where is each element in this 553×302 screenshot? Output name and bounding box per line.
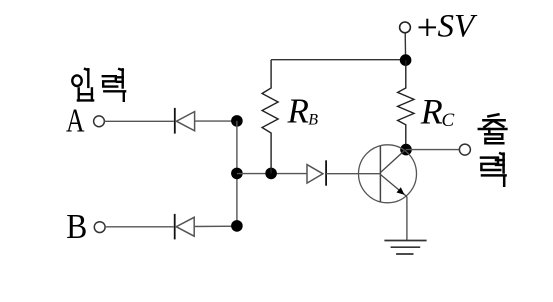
- terminal A circle: [94, 116, 105, 127]
- node junction dot (RB bottom): [265, 168, 277, 180]
- svg-text:A: A: [66, 103, 85, 140]
- svg-text:B: B: [308, 112, 318, 129]
- wire collector to output: [406, 149, 459, 151]
- transistor Q1: [359, 145, 417, 203]
- terminal output circle: [459, 144, 470, 155]
- ground: [384, 241, 426, 255]
- wire top rail: [271, 59, 406, 61]
- node junction dot (B line): [231, 220, 243, 232]
- diode D1 (input A): [175, 108, 195, 134]
- terminal +5V circle: [400, 22, 411, 33]
- svg-text:C: C: [442, 110, 455, 131]
- label 출력 (output): [479, 114, 507, 185]
- resistor RB: [262, 60, 278, 174]
- svg-text:SV: SV: [438, 8, 479, 44]
- wire diode B to node: [194, 225, 237, 227]
- diode D3 (series, to base): [307, 160, 326, 185]
- svg-text:R: R: [420, 91, 443, 131]
- wire A to diode: [104, 120, 173, 122]
- wire diode A to node: [195, 120, 237, 122]
- node junction dot (bus middle): [231, 168, 243, 180]
- node junction dot (+5V rail): [400, 54, 412, 66]
- wire base: [326, 173, 380, 175]
- label 입력 (input): [72, 69, 126, 101]
- wire vertical bus: [236, 121, 238, 226]
- wire bus to diode D3: [237, 173, 307, 175]
- wire emitter down: [406, 197, 408, 241]
- wire +5V to rail: [404, 33, 406, 60]
- resistor RC: [398, 60, 414, 150]
- label +SV: [419, 19, 437, 36]
- diode D2 (input B): [175, 214, 195, 240]
- node junction dot (A line): [231, 115, 243, 127]
- svg-text:R: R: [287, 92, 309, 131]
- wire B to diode: [105, 226, 174, 228]
- terminal B circle: [94, 222, 105, 233]
- svg-text:B: B: [66, 208, 87, 246]
- node junction dot (collector): [400, 144, 412, 156]
